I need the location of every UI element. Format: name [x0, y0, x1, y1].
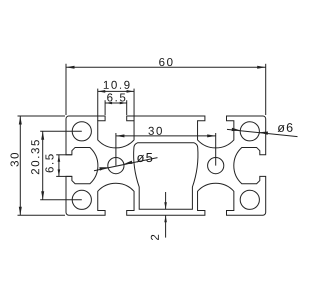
leader Ø6 corner hole [227, 123, 298, 137]
dimension 6.5 left slot opening [45, 154, 72, 176]
centre hole left Ø5 [108, 158, 124, 174]
centre hole right Ø5 [208, 158, 224, 174]
dimension 20.35 corner hole spacing [31, 131, 82, 200]
dimension 60 top [66, 58, 266, 115]
corner hole top-left [72, 122, 91, 141]
profile outer outline with six T-slots [66, 116, 266, 215]
dimension 10.9 slot cavity width [98, 81, 134, 121]
leader Ø5 centre hole [94, 153, 158, 171]
corner hole bottom-right [240, 190, 259, 209]
dimension 30 between centre holes [116, 127, 216, 166]
corner hole top-right Ø6 [240, 122, 259, 141]
central cavity [134, 143, 198, 209]
dimension 30 left height [10, 116, 65, 215]
dimension 6.5 top slot opening [105, 93, 127, 115]
dimension 2 bottom wall thickness [151, 192, 167, 240]
corner hole bottom-left [72, 190, 91, 209]
